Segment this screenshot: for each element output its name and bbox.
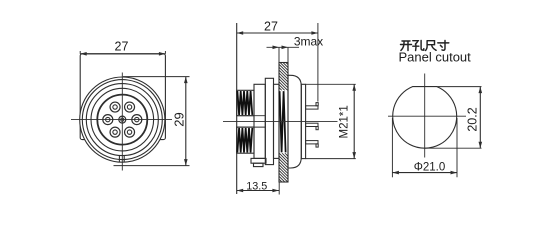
- square flange outline (front view): [80, 54, 165, 140]
- M21x1 extension line top: [306, 83, 356, 85]
- dimension 20.2 extension top: [437, 86, 482, 88]
- coupling nut circle d29: [80, 77, 165, 162]
- svg-text:27: 27: [115, 40, 129, 54]
- dimension 29 line with arrows: [185, 77, 187, 166]
- svg-text:Panel cutout: Panel cutout: [399, 49, 472, 64]
- title Chinese 开孔尺寸: [401, 41, 412, 51]
- dimension phi21.0 extension left: [391, 118, 393, 177]
- vertical centerline (front view): [121, 73, 123, 171]
- solder contact tail 1: [306, 106, 318, 109]
- front face / extension line left: [236, 23, 238, 194]
- dimension 27 line with arrows (front view): [80, 53, 165, 55]
- circle insert housing: [91, 88, 154, 151]
- svg-text:27: 27: [264, 20, 278, 34]
- insulator disc: [301, 84, 305, 158]
- horizontal centerline (side view): [223, 120, 338, 122]
- dimension phi21.0 extension right: [456, 118, 458, 177]
- rear body / jam nut: [288, 75, 301, 168]
- solder contact tail 3: [306, 141, 318, 144]
- svg-text:20.2: 20.2: [466, 107, 480, 131]
- socket contact pin 3: [110, 102, 120, 112]
- socket contact pin 2: [125, 102, 135, 112]
- mounting flange: [265, 78, 273, 164]
- extension line panel front lower: [278, 182, 280, 195]
- dimension 29 extension line bottom: [114, 165, 190, 167]
- dimension 20.2 extension bottom: [425, 147, 482, 149]
- collar section: [254, 84, 265, 158]
- panel cutout circle with flat: [393, 87, 457, 149]
- socket contact pin 1: [132, 115, 142, 125]
- key lug step 1: [251, 158, 266, 163]
- horizontal centerline (front view): [71, 119, 172, 121]
- coupling thread lower block: [237, 127, 254, 153]
- dimension 27 line with arrows (side view): [237, 32, 318, 34]
- socket contact pin 6: [125, 127, 135, 137]
- svg-text:29: 29: [171, 112, 186, 126]
- socket contact pin 4: [103, 115, 113, 125]
- gasket behind flange: [274, 84, 280, 158]
- panel bar outline: [279, 63, 288, 183]
- M21x1 extension line bottom: [306, 158, 356, 160]
- extension line right (27): [317, 23, 319, 102]
- extension line panel front: [278, 47, 280, 62]
- dimension 20.2 line: [479, 87, 481, 149]
- bore line lower: [237, 126, 266, 128]
- mounting thread through panel: [280, 91, 286, 152]
- svg-text:3max: 3max: [294, 35, 323, 49]
- socket contact pin 5: [110, 127, 120, 137]
- horizontal centerline (cutout): [388, 115, 466, 117]
- M21x1 dimension line: [353, 84, 355, 158]
- dimension 3max line and arrows: [267, 46, 300, 48]
- solder contact tail 2: [306, 123, 318, 126]
- svg-text:Φ21.0: Φ21.0: [414, 162, 446, 174]
- coupling thread upper block: [237, 90, 254, 115]
- dimension 29 extension line top: [123, 76, 190, 78]
- vertical centerline (cutout): [424, 74, 426, 158]
- dimension phi21.0 line: [392, 172, 457, 174]
- circle shell front: [86, 84, 158, 156]
- dimension 13.5 line: [237, 190, 280, 192]
- extension line panel rear: [287, 47, 289, 62]
- key lug step 2: [254, 163, 264, 166]
- coupling nut inner rim circle: [82, 80, 162, 160]
- insert circle (thick): [97, 95, 147, 145]
- bore line upper: [237, 115, 266, 117]
- center socket contact pin 7: [119, 116, 126, 123]
- svg-text:M21*1: M21*1: [339, 105, 351, 138]
- keying notch at bottom: [118, 155, 120, 162]
